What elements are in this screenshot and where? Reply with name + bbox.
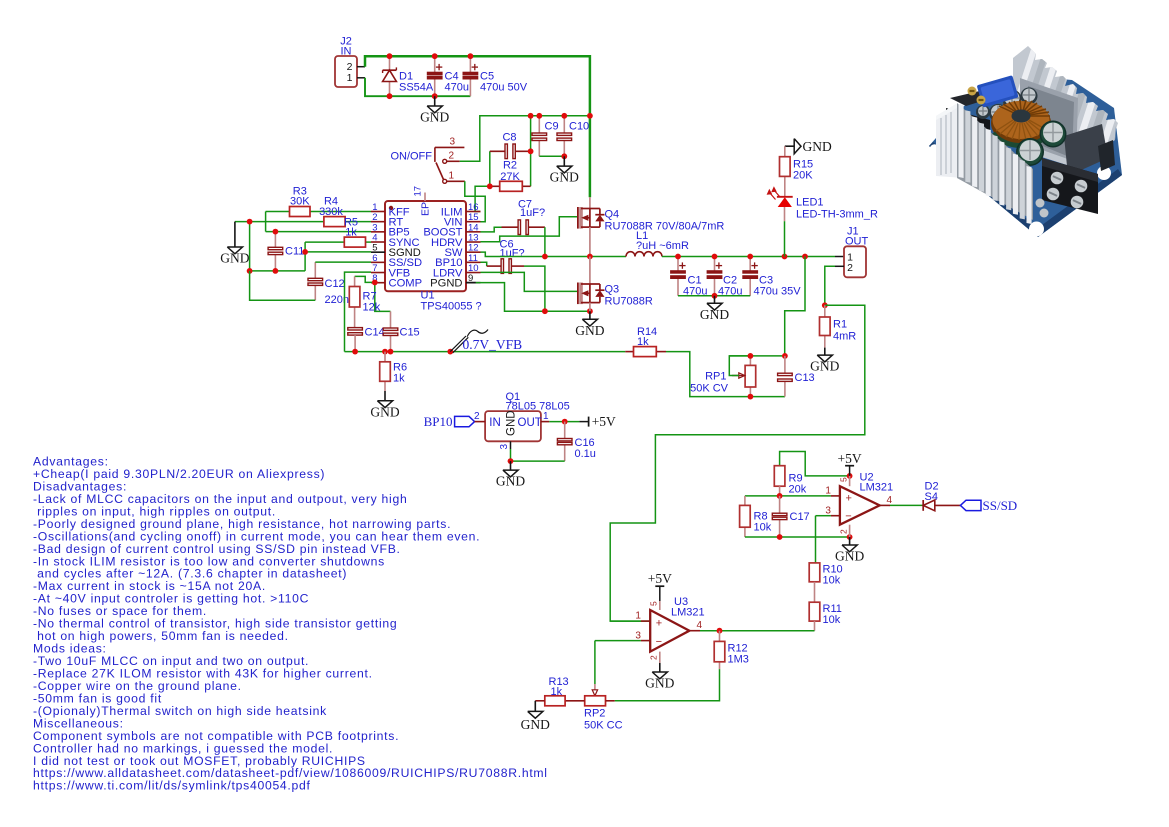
LED LED1 xyxy=(767,186,878,221)
wire ILIM to R2 node xyxy=(475,186,490,211)
resistor R3 30K xyxy=(266,186,371,217)
svg-text:470u 50V: 470u 50V xyxy=(480,82,528,94)
resistor R1 4mR xyxy=(820,305,857,347)
svg-text:+: + xyxy=(846,492,852,504)
svg-text:10k: 10k xyxy=(823,614,841,626)
notes text block xyxy=(33,455,548,793)
svg-text:Q3: Q3 xyxy=(605,284,620,296)
svg-text:+5V: +5V xyxy=(648,571,672,586)
wire R12 to RP2 xyxy=(615,669,720,701)
svg-text:27K: 27K xyxy=(500,171,520,183)
capacitor C14 xyxy=(348,327,385,352)
wire SW output rail xyxy=(662,256,844,258)
junction dot RT xyxy=(247,219,253,225)
wire Q1 output xyxy=(549,421,579,423)
svg-text:GND: GND xyxy=(505,410,517,436)
transistor Q4 RU7088R xyxy=(578,197,724,256)
svg-text:220n: 220n xyxy=(325,294,349,306)
capacitor C11 xyxy=(268,232,304,271)
wire COMP to R7 xyxy=(355,276,375,282)
svg-text:1k: 1k xyxy=(393,373,405,385)
capacitor C16 0.1u xyxy=(557,422,596,462)
power +5V U2 xyxy=(838,451,862,476)
wire RT vertical xyxy=(249,222,251,271)
svg-text:GND: GND xyxy=(700,307,729,322)
photo of DC-DC converter module xyxy=(929,40,1126,237)
svg-text:RU7088R 70V/80A/7mR: RU7088R 70V/80A/7mR xyxy=(605,221,725,233)
resistor R4 330k xyxy=(235,196,371,227)
potentiometer RP2 50K CC xyxy=(565,684,622,732)
svg-text:SS/SD: SS/SD xyxy=(983,498,1018,513)
svg-text:470u: 470u xyxy=(445,82,469,94)
junction dots U2 rows xyxy=(777,473,853,540)
capacitor C6 1uF? xyxy=(481,238,525,273)
junction dot J1 sense xyxy=(822,302,828,308)
svg-text:?uH ~6mR: ?uH ~6mR xyxy=(636,240,689,252)
svg-text:C13: C13 xyxy=(795,372,815,384)
resistor R10 10k xyxy=(809,563,842,602)
svg-text:+5V: +5V xyxy=(838,451,862,466)
svg-text:R2: R2 xyxy=(503,160,517,172)
svg-text:4: 4 xyxy=(887,495,893,506)
svg-text:470u 35V: 470u 35V xyxy=(754,286,802,298)
wire J1 pin2 sense xyxy=(825,266,835,305)
wire switch pin1 to VIN pin xyxy=(465,181,485,221)
wire U2 pin1 row xyxy=(745,495,840,497)
wire U3 pin1 stub xyxy=(610,620,650,622)
capacitor C17 xyxy=(772,496,809,537)
resistor R5 1k xyxy=(305,217,371,248)
svg-text:3: 3 xyxy=(635,630,641,641)
svg-text:330k: 330k xyxy=(319,206,343,218)
svg-text:LED-TH-3mm_R: LED-TH-3mm_R xyxy=(796,209,878,221)
svg-text:1k: 1k xyxy=(345,227,357,239)
svg-text:5: 5 xyxy=(649,601,659,606)
svg-text:RP2: RP2 xyxy=(584,708,605,720)
port BP10 xyxy=(424,414,475,429)
wire U2 pin3 xyxy=(816,515,840,517)
svg-text:C9: C9 xyxy=(545,121,559,133)
svg-text:2: 2 xyxy=(449,151,455,162)
ground symbol output caps xyxy=(700,296,729,322)
svg-text:GND: GND xyxy=(521,717,550,732)
wire 0.7V_VFB rail xyxy=(345,351,626,353)
diode D1 SS54A xyxy=(383,56,434,96)
svg-text:LM321: LM321 xyxy=(671,607,705,619)
wire R3 to BP5 xyxy=(265,212,267,232)
inductor L1 ?uH ~6mR xyxy=(626,230,689,257)
svg-text:GND: GND xyxy=(550,170,579,185)
svg-text:Q4: Q4 xyxy=(605,209,620,221)
junction dots output rail xyxy=(675,254,808,299)
wire SW rail xyxy=(481,252,627,256)
wire Q1 pin3 xyxy=(510,441,512,461)
resistor R2 27K xyxy=(490,160,531,192)
svg-text:LED1: LED1 xyxy=(796,197,824,209)
wire lower left row xyxy=(250,270,306,272)
capacitor C13 xyxy=(778,356,815,397)
svg-text:1: 1 xyxy=(347,72,353,84)
junction dots input rails xyxy=(387,53,474,99)
svg-text:PGND: PGND xyxy=(430,277,462,289)
svg-text:20k: 20k xyxy=(789,484,807,496)
junction dot COMP xyxy=(372,280,378,286)
wire U2 pin3 to R10 xyxy=(815,516,817,563)
ground symbol R6 xyxy=(370,391,399,419)
svg-text:3: 3 xyxy=(450,137,456,148)
wire VFB pin xyxy=(345,272,372,352)
probe 0.7V_VFB xyxy=(450,330,522,353)
ground symbol Q1 xyxy=(496,461,525,489)
junction dots PGND xyxy=(542,308,593,314)
wire C9/C10 ground xyxy=(539,155,564,157)
svg-text:RP1: RP1 xyxy=(705,371,726,383)
wire SS/SD row xyxy=(315,261,371,263)
svg-text:3: 3 xyxy=(825,505,831,516)
svg-text:0.7V_VFB: 0.7V_VFB xyxy=(463,337,523,352)
svg-text:50K CV: 50K CV xyxy=(690,383,729,395)
svg-text:GND: GND xyxy=(420,110,449,125)
svg-text:C14: C14 xyxy=(365,327,385,339)
ground symbol R15 (rotated) xyxy=(785,139,832,154)
capacitor C1 470u xyxy=(671,257,708,298)
wire PGND rail xyxy=(466,283,590,312)
wire BP5 row xyxy=(266,231,371,233)
svg-text:GND: GND xyxy=(803,139,832,154)
svg-text:20K: 20K xyxy=(793,170,813,182)
svg-text:GND: GND xyxy=(645,676,674,691)
svg-text:1k: 1k xyxy=(637,336,649,348)
wire VIN bus from J2 to Q4 drain xyxy=(365,56,590,197)
ground symbol U3 xyxy=(645,663,674,691)
junction dots SW xyxy=(542,254,593,260)
capacitor C4 470u xyxy=(427,56,469,96)
wire input ground rail xyxy=(365,78,470,96)
ground symbol R1 xyxy=(810,348,839,374)
wire C12 bottom return xyxy=(250,271,316,300)
svg-text:12k: 12k xyxy=(363,302,381,314)
junction dot C11 top xyxy=(273,229,279,235)
svg-text:1uF?: 1uF? xyxy=(520,207,545,219)
ground symbol R13 xyxy=(521,701,550,732)
connector J1 (OUT) xyxy=(835,226,869,278)
op-amp U3 LM321 xyxy=(635,596,704,663)
wire LED to output rail xyxy=(784,221,786,256)
capacitor C2 470u xyxy=(707,257,742,298)
svg-text:GND: GND xyxy=(496,474,525,489)
svg-text:EP: EP xyxy=(420,202,432,216)
svg-text:1: 1 xyxy=(825,485,831,496)
wire U3 out row xyxy=(689,630,814,632)
svg-text:GND: GND xyxy=(575,323,604,338)
svg-text:IN: IN xyxy=(489,417,501,429)
capacitor C15 xyxy=(383,311,419,351)
ground symbol U2 xyxy=(835,537,864,564)
junction dot R9 bottom xyxy=(777,493,783,499)
svg-text:LM321: LM321 xyxy=(860,482,894,494)
wire U2 out xyxy=(880,504,924,506)
port SS/SD xyxy=(960,498,1017,513)
junction dot corner xyxy=(247,268,253,274)
capacitor C12 220n xyxy=(308,262,349,306)
resistor R7 12k xyxy=(349,276,380,327)
svg-text:5: 5 xyxy=(839,477,849,482)
junction dot Q1 gnd xyxy=(508,458,514,464)
junction dot R2 left xyxy=(487,183,493,189)
wire C6 to PGND xyxy=(524,266,545,311)
wire output to CV divider xyxy=(785,257,805,356)
wire HDRV to Q4 gate xyxy=(481,217,578,242)
connector J2 (IN) xyxy=(335,36,365,88)
svg-text:COMP: COMP xyxy=(389,277,423,289)
ground symbol input xyxy=(420,96,449,124)
capacitor C9 xyxy=(532,116,559,157)
svg-text:78L05 78L05: 78L05 78L05 xyxy=(506,401,570,413)
svg-text:1: 1 xyxy=(449,171,455,182)
capacitor C8 xyxy=(490,132,531,159)
wire C16 ground xyxy=(511,460,565,462)
svg-text:30K: 30K xyxy=(290,196,310,208)
regulator Q1 78L05 xyxy=(474,391,570,450)
wire sense to U3 xyxy=(610,305,865,621)
wire R5/SGND vertical xyxy=(304,242,306,271)
wire COMP down to C15 xyxy=(375,282,391,311)
svg-text:−: − xyxy=(656,636,662,648)
svg-text:0.1u: 0.1u xyxy=(575,448,596,460)
wire RP1 top rail xyxy=(729,355,785,357)
svg-text:2: 2 xyxy=(847,262,853,274)
svg-text:S4: S4 xyxy=(925,491,938,503)
svg-text:BP10: BP10 xyxy=(424,414,453,429)
capacitor C10 xyxy=(557,116,589,157)
svg-text:1M3: 1M3 xyxy=(728,654,749,666)
svg-text:1k: 1k xyxy=(551,686,563,698)
svg-text:17: 17 xyxy=(413,186,424,197)
svg-text:3: 3 xyxy=(499,444,510,450)
wire U3 pin3 to wiper xyxy=(594,641,596,684)
svg-text:GND: GND xyxy=(370,404,399,419)
ground symbol RT net xyxy=(220,222,249,266)
junction dots VFB rail xyxy=(352,349,453,355)
wire C8/R2 right vertical xyxy=(530,116,532,187)
capacitor C3 470u 35V xyxy=(743,257,801,298)
svg-text:10k: 10k xyxy=(754,522,772,534)
svg-text:−: − xyxy=(845,511,851,523)
svg-text:C15: C15 xyxy=(400,327,420,339)
junction dot Q1 out xyxy=(562,419,568,425)
svg-text:50K CC: 50K CC xyxy=(584,720,623,732)
wire switch pin2 to input rail xyxy=(460,116,590,162)
svg-text:1uF?: 1uF? xyxy=(500,247,525,259)
transistor Q3 RU7088R xyxy=(578,257,653,312)
resistor R13 1k xyxy=(535,676,568,706)
ground symbol C9/C10 xyxy=(550,156,579,184)
junction dot SGND xyxy=(302,249,308,255)
capacitor C7 1uF? xyxy=(481,198,546,234)
svg-text:SS54A: SS54A xyxy=(399,82,434,94)
wire C8 left vertical xyxy=(489,151,491,186)
svg-text:1: 1 xyxy=(635,610,641,621)
junction dot C11 bottom xyxy=(273,268,279,274)
svg-text:IN: IN xyxy=(341,46,352,58)
diode D2 S4 xyxy=(923,481,960,511)
op-amp U2 LM321 xyxy=(825,472,893,538)
svg-text:ON/OFF: ON/OFF xyxy=(390,151,432,163)
wire LDRV to Q3 gate xyxy=(481,272,578,291)
junction dots RP1/C13 xyxy=(748,353,788,400)
wire U2 gnd row xyxy=(745,536,850,538)
svg-text:OUT: OUT xyxy=(518,417,542,429)
svg-text:2: 2 xyxy=(474,411,480,422)
svg-text:RU7088R: RU7088R xyxy=(605,296,653,308)
wire U3 pin3 xyxy=(595,640,650,642)
svg-text:https://www.ti.com/lit/ds/syml: https://www.ti.com/lit/ds/symlink/tps400… xyxy=(33,779,311,793)
potentiometer RP1 50K CV xyxy=(690,356,756,397)
svg-text:+: + xyxy=(656,617,662,629)
svg-text:C12: C12 xyxy=(325,278,345,290)
resistor R11 10k xyxy=(809,602,842,631)
wire output cap ground xyxy=(678,295,750,297)
power +5V U3 xyxy=(648,571,672,601)
junction dot C8 right xyxy=(528,148,534,154)
svg-text:2: 2 xyxy=(839,529,849,534)
switch SW1 ON/OFF xyxy=(390,137,464,184)
svg-text:OUT: OUT xyxy=(845,235,869,247)
resistor R9 20k xyxy=(774,452,849,496)
wire SGND row xyxy=(305,251,371,253)
svg-text:10k: 10k xyxy=(823,575,841,587)
resistor R6 1k xyxy=(380,352,407,391)
svg-text:C8: C8 xyxy=(502,132,516,144)
junction dot R12 top xyxy=(717,628,723,634)
svg-text:4mR: 4mR xyxy=(833,331,856,343)
resistor R14 1k xyxy=(625,326,666,357)
resistor R12 1M3 xyxy=(714,631,749,669)
power +5V Q1 xyxy=(579,414,616,429)
junction dots C9 C10 xyxy=(528,113,593,159)
svg-text:+5V: +5V xyxy=(592,414,616,429)
svg-text:TPS40055 ?: TPS40055 ? xyxy=(421,301,482,313)
svg-text:4: 4 xyxy=(697,620,703,631)
svg-text:R1: R1 xyxy=(833,319,847,331)
capacitor C5 470u 50V xyxy=(463,56,528,96)
resistor R15 20K xyxy=(780,146,814,197)
svg-text:GND: GND xyxy=(220,251,249,266)
svg-text:2: 2 xyxy=(649,655,659,660)
svg-text:C11: C11 xyxy=(285,246,304,258)
IC U1 TPS40055 xyxy=(371,186,482,313)
svg-text:GND: GND xyxy=(835,549,864,564)
wire R14 to CV pot xyxy=(666,352,785,397)
svg-text:C10: C10 xyxy=(569,121,589,133)
svg-text:C17: C17 xyxy=(790,511,810,523)
resistor R8 10k xyxy=(740,496,772,537)
ground symbol PGND xyxy=(575,311,604,338)
wire C7 to SW xyxy=(544,227,546,256)
